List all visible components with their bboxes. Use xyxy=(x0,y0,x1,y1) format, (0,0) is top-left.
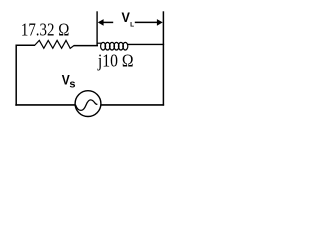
VL marker right arrow xyxy=(135,19,163,26)
wire bottom right segment xyxy=(101,104,164,106)
wire between resistor and inductor xyxy=(74,45,98,47)
wire between inductor and right edge xyxy=(127,43,164,45)
inductor L coil loops xyxy=(97,42,128,50)
resistor R 17.32 ohm zigzag xyxy=(35,40,75,48)
svg-text:s: s xyxy=(69,79,75,91)
VL marker left bar xyxy=(96,11,98,45)
sine wave inside source xyxy=(76,100,98,111)
svg-text:17.32 Ω: 17.32 Ω xyxy=(21,20,69,40)
wire bottom left segment xyxy=(15,104,75,106)
svg-text:j10 Ω: j10 Ω xyxy=(97,51,133,71)
svg-text:L: L xyxy=(130,21,134,28)
wire left edge vertical xyxy=(15,45,17,106)
AC voltage source Vs circle xyxy=(75,91,101,117)
wire top-left segment xyxy=(16,44,36,46)
wire right edge vertical xyxy=(162,11,164,105)
VL marker left arrow xyxy=(98,19,113,26)
